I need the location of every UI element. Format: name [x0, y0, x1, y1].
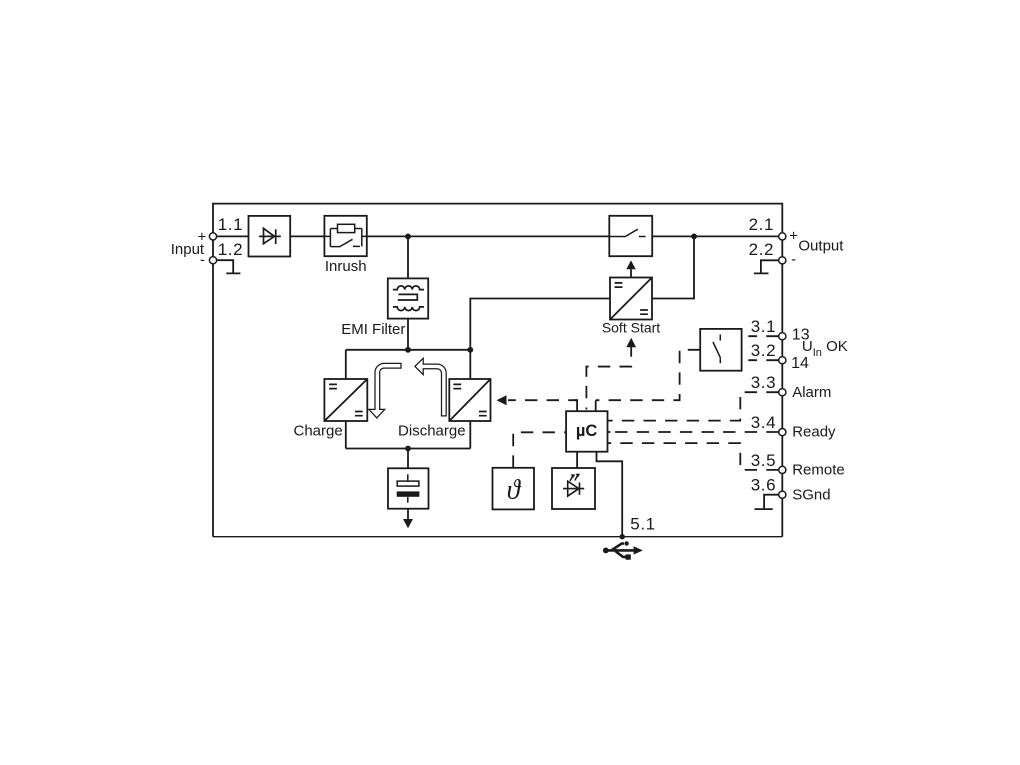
arrowhead microcontroller to soft start up	[626, 338, 636, 348]
inrush resistor leads	[330, 228, 361, 230]
terminal 13	[779, 333, 786, 340]
terminal 3.3 alarm	[779, 389, 786, 396]
battery cell plates	[407, 474, 409, 503]
junction node USB 5.1	[620, 534, 625, 539]
svg-text:+: +	[198, 228, 207, 245]
terminal 2.2	[779, 257, 786, 264]
output switch box	[609, 216, 652, 256]
dashed line microcontroller to relay	[596, 350, 701, 400]
charge converter diagonal	[324, 379, 367, 421]
wire discharge converter to bottom bus	[469, 421, 471, 449]
terminal 2.1	[779, 233, 786, 240]
terminal 1.2	[209, 257, 216, 264]
wire input 1.1 to rectifier	[213, 235, 249, 237]
charge converter dc marks	[329, 384, 363, 415]
microcontroller box U1	[566, 411, 607, 452]
terminal 3.6 sgnd	[779, 491, 786, 498]
discharge converter dc marks	[453, 384, 486, 415]
ground symbol terminal 1.2	[213, 260, 240, 273]
microcontroller top pins	[574, 400, 596, 411]
dashed line microcontroller to soft start	[586, 347, 631, 410]
soft start converter dc marks	[615, 283, 648, 314]
svg-text:Discharge: Discharge	[398, 423, 466, 440]
wire rectifier to inrush	[290, 235, 324, 237]
discharge converter diagonal	[449, 379, 490, 421]
relay contact box K1	[700, 329, 741, 371]
wire soft start control arrow shaft	[630, 269, 632, 277]
terminal 3.5 remote	[779, 466, 786, 473]
wire battery bottom bus	[346, 448, 471, 450]
svg-text:1.2: 1.2	[218, 240, 243, 259]
svg-text:3.3: 3.3	[751, 373, 776, 392]
charge direction hollow arrow	[369, 363, 401, 418]
svg-text:SGnd: SGnd	[792, 486, 830, 503]
inrush limiter box	[324, 216, 366, 256]
wire microcontroller to USB 5.1	[597, 452, 623, 537]
frame right border	[781, 203, 783, 537]
LED light arrows	[570, 476, 578, 482]
junction node charge bus left	[405, 347, 411, 353]
svg-text:Inrush: Inrush	[325, 258, 367, 275]
svg-text:2.2: 2.2	[749, 240, 774, 259]
svg-text:Charge: Charge	[293, 423, 342, 440]
dashed line relay contact 13	[748, 335, 778, 337]
terminal 3.4 ready	[779, 429, 786, 436]
svg-text:1.1: 1.1	[218, 215, 243, 234]
wire charge converter to bottom bus	[345, 421, 347, 449]
LED diode symbol	[563, 481, 584, 496]
inrush bypass switch	[330, 239, 360, 246]
discharge direction hollow arrow	[415, 358, 446, 416]
terminal 14	[779, 357, 786, 364]
arrowhead soft start enable up	[626, 260, 635, 269]
solid arrowheads	[403, 234, 697, 540]
dashed line microcontroller to remote elbow	[610, 443, 778, 470]
svg-text:3.2: 3.2	[751, 341, 776, 360]
dashed line microcontroller to discharge converter	[508, 399, 577, 401]
wire bus to battery	[407, 449, 409, 469]
discharge converter box	[449, 379, 490, 421]
svg-text:EMI Filter: EMI Filter	[341, 321, 405, 338]
wire soft start input	[470, 299, 610, 350]
svg-text:3.1: 3.1	[751, 317, 776, 336]
inrush resistor R	[338, 224, 355, 232]
wire EMI filter to charge bus	[407, 318, 409, 349]
svg-text:-: -	[791, 251, 796, 268]
wire soft start output to node	[652, 236, 694, 298]
soft start converter diagonal	[610, 278, 652, 320]
svg-text:Alarm: Alarm	[792, 384, 831, 401]
svg-text:5.1: 5.1	[630, 515, 655, 534]
junction node switch output	[691, 234, 697, 240]
dashed line relay contact 14	[748, 359, 778, 361]
dashed line temperature sensor to microcontroller	[513, 432, 566, 468]
LED indicator box	[552, 468, 595, 509]
svg-text:3.5: 3.5	[751, 451, 776, 470]
EMI filter box	[388, 278, 428, 318]
wire node to EMI filter	[407, 236, 409, 278]
microcontroller right pin stubs	[608, 421, 611, 444]
battery box	[388, 468, 429, 508]
rectifier diode symbol	[259, 228, 281, 244]
svg-text:2.1: 2.1	[749, 215, 774, 234]
soft start converter box U3	[610, 278, 652, 320]
svg-text:+: +	[789, 228, 798, 245]
wire inrush to output switch	[367, 235, 610, 237]
svg-text:µC: µC	[576, 422, 598, 440]
inrush parallel connection bars	[324, 229, 366, 247]
terminal circles	[209, 233, 786, 499]
svg-text:3.6: 3.6	[751, 476, 776, 495]
output switch contact	[609, 229, 645, 236]
svg-text:ϑ: ϑ	[507, 475, 522, 505]
wire bus to charge converter	[345, 350, 347, 379]
frame left border	[212, 203, 214, 537]
junction node diode-inrush bus	[405, 234, 411, 240]
arrowhead microcontroller to discharge left	[497, 395, 507, 405]
terminal 1.1	[209, 233, 216, 240]
svg-text:Output: Output	[798, 237, 844, 254]
wire microcontroller to LED	[576, 452, 578, 469]
dashed control lines	[508, 336, 779, 470]
svg-text:3.4: 3.4	[751, 413, 776, 432]
wire bus to discharge converter	[469, 350, 471, 379]
frame top border	[213, 203, 782, 205]
arrowhead battery down	[403, 519, 413, 528]
ground symbol terminal 2.2	[754, 260, 783, 273]
dashed line microcontroller to alarm elbow	[610, 392, 778, 420]
junction node battery bus	[405, 446, 411, 452]
svg-text:14: 14	[791, 355, 809, 372]
junction node charge bus right	[467, 347, 473, 353]
svg-text:Remote: Remote	[792, 462, 845, 479]
wire switch to output 2.1	[652, 235, 782, 237]
EMI filter common mode choke top winding	[393, 286, 424, 290]
EMI filter core	[398, 294, 418, 300]
wire charge top bus	[346, 349, 471, 351]
svg-text:-: -	[200, 251, 205, 268]
rectifier diode box	[249, 216, 291, 257]
svg-text:Ready: Ready	[792, 424, 836, 441]
frame bottom border	[213, 536, 782, 538]
temperature sensor box	[493, 468, 535, 510]
svg-text:Soft Start: Soft Start	[602, 319, 660, 335]
EMI filter common mode choke bottom winding	[393, 307, 424, 311]
wire battery down arrow	[407, 509, 409, 520]
USB connector symbol	[606, 544, 635, 557]
relay contact symbol	[713, 335, 721, 364]
ground symbol terminal 3.6 SGnd	[755, 495, 783, 509]
charge converter box	[324, 379, 367, 421]
dashed line microcontroller to ready terminal	[610, 431, 778, 433]
